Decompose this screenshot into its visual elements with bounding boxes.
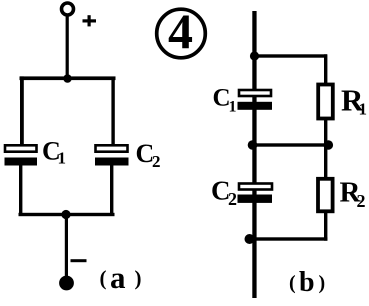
wire main vertical line of circuit b	[252, 11, 256, 298]
svg-text:b: b	[299, 267, 315, 298]
capacitor C2 (left circuit)	[95, 145, 129, 165]
node E (junction dot on R branch, middle)	[324, 140, 334, 150]
capacitor C2 (right circuit, on main line)	[238, 184, 273, 203]
label - (minus sign)	[71, 259, 87, 262]
wire bottom horizontal bus of circuit a	[19, 213, 115, 216]
svg-text:a: a	[110, 260, 126, 295]
svg-text:1: 1	[229, 99, 237, 116]
svg-text:(: (	[289, 272, 296, 294]
wire R1 branch bottom segment	[324, 118, 327, 147]
label C2 (left circuit)	[136, 139, 161, 171]
node F (junction dot on main line, bottom)	[245, 234, 255, 244]
svg-text:(: (	[100, 266, 107, 290]
label C2 (right circuit)	[211, 176, 237, 210]
wire R2 branch top segment	[324, 145, 327, 178]
resistor R2 (rectangle body)	[318, 179, 333, 212]
wire middle horizontal connector	[253, 143, 329, 146]
capacitor C1 (right circuit, on main line)	[238, 90, 273, 110]
wire below C2	[110, 166, 113, 217]
wire R1 branch top segment	[324, 54, 327, 85]
wire below C1	[19, 166, 22, 217]
svg-text:2: 2	[228, 189, 237, 209]
svg-text:2: 2	[357, 191, 366, 211]
wire bottom horizontal connector	[249, 237, 327, 240]
svg-text:4: 4	[168, 3, 193, 59]
svg-text:1: 1	[359, 100, 368, 119]
label + (plus sign)	[83, 15, 97, 26]
terminal + (open circle, positive terminal of circuit a)	[62, 3, 74, 15]
wire from + terminal to node A	[66, 15, 69, 79]
label C1 (left circuit)	[42, 137, 66, 168]
wire R2 branch bottom segment	[324, 211, 327, 241]
label (a)	[100, 260, 142, 295]
label (b)	[289, 267, 325, 298]
node D (junction dot on main line, middle)	[248, 140, 258, 150]
figure number 4 in circle	[157, 3, 206, 59]
node C (junction dot, top of C1/R1 pair)	[250, 51, 259, 60]
terminal - (filled dot, negative terminal of circuit a)	[59, 276, 74, 291]
wire left branch down to C1	[20, 76, 24, 145]
wire from node B down to negative terminal	[65, 215, 68, 278]
wire right branch down to C2	[111, 77, 114, 146]
capacitor C1 (left circuit, electrolytic: hollow top plate, solid bottom plate)	[5, 145, 38, 165]
svg-text:1: 1	[58, 149, 67, 168]
svg-text:2: 2	[152, 152, 161, 171]
svg-text:): )	[319, 272, 326, 294]
resistor R1 (rectangle body)	[318, 85, 333, 119]
svg-text:): )	[135, 266, 142, 290]
wire top horizontal bus of circuit a	[20, 76, 116, 80]
label R2	[340, 177, 366, 212]
node A (junction dot, top of parallel caps)	[63, 74, 72, 83]
label R1	[341, 83, 367, 119]
label C1 (right circuit)	[213, 85, 237, 116]
node B (junction dot, bottom of parallel caps)	[61, 210, 70, 219]
wire top horizontal to R1 branch	[254, 54, 327, 57]
